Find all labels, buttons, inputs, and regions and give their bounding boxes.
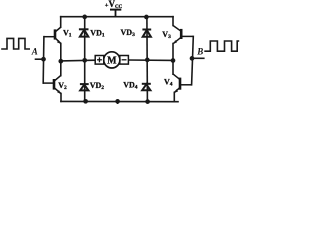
wire right leg upper (rail to V3 collector) bbox=[172, 17, 174, 26]
node dot top rail / VD3 bbox=[144, 15, 149, 20]
transistor V2 bbox=[43, 76, 61, 94]
wire left leg upper (rail to V1 collector) bbox=[60, 17, 62, 28]
node dot top rail / VD1 bbox=[82, 15, 87, 20]
wire base tie line left (V1 base to V2 base) bbox=[42, 37, 45, 83]
wire base tie line right (V3 base to V4 base) bbox=[192, 36, 194, 84]
wire motor line right (- box to right mid node) bbox=[128, 59, 173, 61]
transistor V4 bbox=[173, 74, 192, 92]
wire VD3/VD4 column bbox=[146, 17, 149, 102]
svg-text:M: M bbox=[107, 55, 117, 66]
motor M circle bbox=[104, 52, 120, 68]
diode VD2 bbox=[80, 84, 89, 90]
wire input A lead bbox=[36, 58, 44, 60]
wire right leg lower (V4 emitter to bottom rail) bbox=[173, 92, 175, 101]
diode VD1 bbox=[79, 29, 89, 36]
diode VD4 bbox=[142, 84, 151, 90]
node dot left mid bbox=[58, 59, 63, 64]
wire motor line left (mid node to + box) bbox=[61, 59, 95, 62]
transistor V3 bbox=[173, 26, 193, 44]
wire VD1/VD2 column bbox=[84, 17, 86, 102]
wire bottom rail bbox=[61, 100, 178, 102]
node dot bottom rail center terminal bbox=[115, 99, 120, 104]
diode VD3 bbox=[142, 30, 151, 37]
svg-text:B: B bbox=[196, 47, 203, 57]
node dot input B junction bbox=[190, 56, 195, 61]
node dot motor line / VD column left bbox=[82, 58, 87, 63]
wire left leg lower (V2 emitter to bottom rail) bbox=[60, 94, 62, 102]
node dot input A junction bbox=[41, 57, 46, 62]
node dot bottom rail / VD4 bbox=[145, 99, 150, 104]
wire top rail bbox=[61, 16, 173, 18]
node dot right mid bbox=[171, 58, 176, 63]
node dot bottom rail / VD2 bbox=[83, 99, 88, 104]
waveform input A bbox=[1, 38, 30, 49]
wire input B lead bbox=[192, 57, 204, 59]
motor plus terminal box bbox=[95, 56, 104, 65]
power terminal +Vcc bbox=[110, 10, 121, 17]
svg-text:A: A bbox=[31, 47, 38, 57]
wire left leg mid (V1 emitter to mid node to V2 collector) bbox=[60, 44, 62, 76]
node dot motor line / VD column right bbox=[145, 58, 150, 63]
motor minus terminal box bbox=[120, 56, 129, 65]
transistor V1 bbox=[44, 27, 62, 43]
wire right leg mid (V3 emitter to mid node to V4 collector) bbox=[172, 44, 174, 75]
waveform output B bbox=[204, 41, 239, 51]
